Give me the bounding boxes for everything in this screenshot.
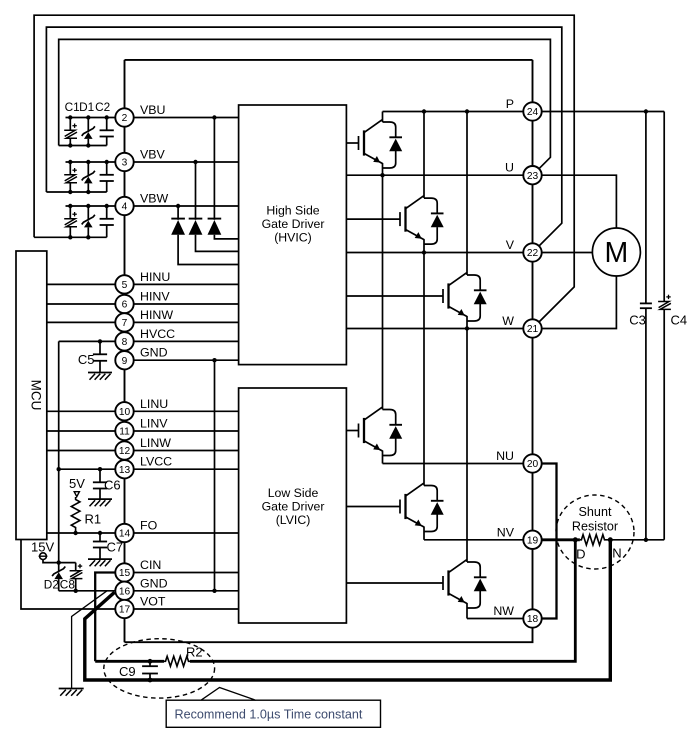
svg-text:VBU: VBU	[140, 103, 165, 117]
svg-text:C4: C4	[671, 313, 688, 328]
svg-text:10: 10	[119, 407, 131, 418]
svg-text:C1: C1	[65, 100, 80, 114]
svg-text:Gate Driver: Gate Driver	[262, 217, 325, 231]
svg-text:Recommend 1.0µs Time constant: Recommend 1.0µs Time constant	[175, 708, 363, 722]
svg-text:21: 21	[527, 324, 539, 335]
svg-text:5: 5	[122, 280, 128, 291]
svg-text:GND: GND	[140, 576, 168, 590]
svg-text:2: 2	[122, 113, 128, 124]
svg-text:C2: C2	[95, 100, 110, 114]
svg-text:V: V	[506, 238, 515, 252]
svg-text:VBW: VBW	[140, 192, 169, 206]
svg-text:LVCC: LVCC	[140, 455, 172, 469]
svg-text:9: 9	[122, 356, 128, 367]
svg-text:GND: GND	[140, 346, 168, 360]
svg-text:19: 19	[527, 535, 539, 546]
svg-text:HINU: HINU	[140, 270, 170, 284]
svg-text:High Side: High Side	[266, 204, 319, 218]
svg-text:16: 16	[119, 586, 131, 597]
svg-text:14: 14	[119, 529, 131, 540]
svg-text:Gate Driver: Gate Driver	[262, 500, 325, 514]
svg-text:CIN: CIN	[140, 558, 161, 572]
svg-text:C5: C5	[78, 352, 95, 367]
svg-text:Low Side: Low Side	[268, 486, 319, 500]
svg-text:Shunt: Shunt	[579, 505, 612, 519]
svg-text:8: 8	[122, 337, 128, 348]
svg-text:C3: C3	[629, 313, 646, 328]
svg-text:NV: NV	[497, 525, 515, 539]
svg-text:20: 20	[527, 459, 539, 470]
svg-text:5V: 5V	[69, 476, 85, 491]
svg-text:4: 4	[122, 202, 128, 213]
svg-text:LINV: LINV	[140, 417, 168, 431]
svg-text:15V: 15V	[31, 540, 54, 555]
svg-text:C6: C6	[104, 477, 121, 492]
svg-text:FO: FO	[140, 519, 158, 533]
svg-text:NU: NU	[496, 449, 514, 463]
svg-text:C8: C8	[60, 578, 76, 592]
svg-text:VBV: VBV	[140, 148, 166, 162]
svg-text:HINV: HINV	[140, 290, 170, 304]
svg-text:7: 7	[122, 318, 128, 329]
svg-text:(LVIC): (LVIC)	[276, 513, 311, 527]
svg-text:N: N	[612, 546, 621, 561]
svg-text:13: 13	[119, 465, 131, 476]
svg-text:24: 24	[527, 107, 539, 118]
svg-text:12: 12	[119, 446, 131, 457]
svg-text:D1: D1	[79, 100, 94, 114]
svg-text:W: W	[502, 314, 514, 328]
svg-text:15: 15	[119, 568, 131, 579]
svg-text:6: 6	[122, 300, 128, 311]
svg-text:18: 18	[527, 614, 539, 625]
svg-text:D: D	[576, 547, 585, 562]
svg-text:NW: NW	[493, 604, 514, 618]
svg-text:MCU: MCU	[29, 380, 44, 411]
svg-text:C9: C9	[119, 664, 136, 679]
svg-text:(HVIC): (HVIC)	[274, 231, 312, 245]
svg-text:HINW: HINW	[140, 308, 173, 322]
svg-text:HVCC: HVCC	[140, 327, 175, 341]
svg-text:R2: R2	[186, 645, 203, 660]
svg-text:22: 22	[527, 248, 539, 259]
svg-text:11: 11	[119, 427, 130, 438]
svg-text:D2: D2	[44, 578, 59, 592]
svg-text:LINW: LINW	[140, 436, 171, 450]
svg-text:Resistor: Resistor	[572, 520, 618, 534]
svg-text:VOT: VOT	[140, 595, 166, 609]
svg-text:3: 3	[122, 158, 128, 169]
svg-text:17: 17	[119, 605, 131, 616]
svg-text:P: P	[506, 97, 514, 111]
svg-text:U: U	[505, 161, 514, 175]
svg-text:M: M	[605, 237, 629, 269]
svg-text:R1: R1	[85, 512, 102, 527]
svg-text:LINU: LINU	[140, 397, 168, 411]
svg-text:23: 23	[527, 171, 539, 182]
